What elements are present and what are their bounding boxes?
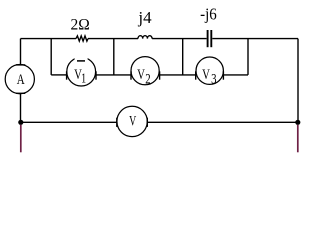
svg-text:2: 2: [145, 70, 150, 87]
svg-text:A: A: [17, 70, 25, 87]
ammeter A terminal tick bottom: [16, 92, 25, 94]
node junction dot bottom right: [295, 120, 300, 125]
voltmeter V terminal tick right: [146, 118, 148, 127]
voltmeter V circle: [117, 106, 147, 136]
voltmeter V terminal tick left: [116, 118, 118, 127]
svg-text:j4: j4: [137, 8, 152, 27]
capacitor C (-j6) plate right: [210, 30, 212, 47]
inductor L (j4) coil: [138, 36, 152, 39]
svg-text:1: 1: [81, 70, 86, 86]
voltmeter V2 terminal tick right: [159, 71, 161, 79]
wire between resistor and inductor: [88, 38, 138, 40]
resistor R (2 ohm) zigzag: [76, 36, 88, 41]
ammeter A terminal tick top: [16, 64, 25, 66]
svg-text:V: V: [202, 65, 210, 82]
svg-text:V: V: [129, 113, 136, 129]
wire ammeter to bottom left junction: [20, 94, 22, 123]
wire bottom left segment: [21, 121, 117, 123]
wire branch vertical right of V3: [247, 39, 249, 75]
wire stub to V1 left: [51, 74, 66, 76]
wire branch vertical left of V1: [50, 39, 52, 75]
svg-text:3: 3: [211, 70, 217, 87]
voltmeter V3 terminal tick left: [195, 71, 197, 79]
wire between inductor and capacitor: [152, 38, 207, 40]
wire branch vertical between V2 and V3: [182, 39, 184, 75]
voltmeter V1 terminal tick right: [95, 71, 97, 79]
wire left vertical (top wire to ammeter): [20, 39, 22, 65]
svg-text:-j6: -j6: [200, 6, 217, 24]
voltmeter V2 terminal tick left: [130, 71, 132, 79]
overline bar above V1: [77, 60, 85, 62]
wire top left segment: [21, 38, 77, 40]
wire V3 right to corner: [223, 74, 248, 76]
voltmeter V1 circle: [67, 57, 96, 86]
wire V1 right to V2 left: [96, 74, 131, 76]
wire right vertical: [297, 39, 299, 123]
terminal lead bottom right (maroon): [297, 125, 299, 153]
node junction dot bottom left: [18, 120, 23, 125]
svg-text:2Ω: 2Ω: [71, 17, 90, 34]
erase gap in V1 circle top: [75, 54, 88, 59]
svg-text:V: V: [137, 65, 145, 82]
terminal lead bottom left (maroon): [20, 125, 22, 153]
ammeter A circle: [5, 65, 34, 94]
capacitor C (-j6) plate left: [207, 30, 209, 47]
voltmeter V3 circle: [196, 57, 223, 84]
wire V2 right to V3 left: [160, 74, 196, 76]
voltmeter V3 terminal tick right: [222, 71, 224, 79]
voltmeter V2 circle: [131, 57, 159, 85]
wire bottom right segment: [147, 121, 297, 123]
wire branch vertical between V1 and V2: [113, 39, 115, 75]
wire capacitor to top right corner: [212, 38, 298, 40]
voltmeter V1 terminal tick left: [66, 71, 68, 79]
